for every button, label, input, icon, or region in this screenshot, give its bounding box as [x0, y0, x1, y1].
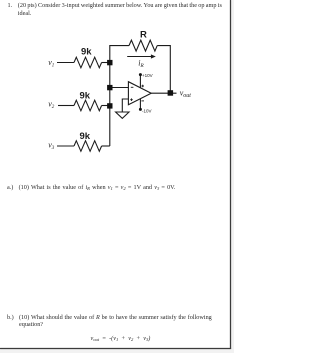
- arrowhead i_R: [151, 54, 156, 58]
- svg-text:iR: iR: [138, 59, 144, 70]
- wire summing bus: [110, 46, 129, 146]
- op-amp plus supply tick: [141, 85, 144, 87]
- equation v_out = -(v1 + v2 + v3): [91, 335, 151, 342]
- question a: [7, 184, 13, 191]
- resistor 9k (v2): [74, 100, 102, 111]
- page bottom edge: [0, 349, 234, 353]
- question b line 2: [19, 321, 43, 328]
- svg-text:v1: v1: [48, 58, 54, 69]
- resistor 9k (v3): [74, 141, 102, 152]
- node A junction dot (v1 row): [107, 60, 112, 65]
- problem statement line 2: [18, 10, 32, 17]
- svg-text:R: R: [140, 29, 147, 40]
- problem statement line 1: [8, 2, 13, 9]
- ground: [116, 112, 129, 118]
- wire v2 to node A: [102, 105, 110, 107]
- junction dot (v2 row): [107, 103, 112, 108]
- current arrow i_R: [127, 56, 151, 58]
- pin -supply: [139, 99, 141, 110]
- svg-text:-10V: -10V: [142, 109, 152, 114]
- wire op-amp output: [151, 92, 176, 94]
- svg-text:9k: 9k: [81, 47, 92, 58]
- -10V supply dot: [139, 108, 142, 111]
- page right edge: [231, 0, 234, 353]
- svg-text:v3: v3: [48, 141, 55, 152]
- pin +supply: [139, 75, 141, 88]
- junction dot (inverting row): [107, 85, 112, 90]
- resistor R feedback: [129, 40, 157, 51]
- wire R to output node: [157, 46, 170, 93]
- op-amp minus supply tick: [141, 100, 144, 102]
- +10V supply dot: [139, 73, 142, 76]
- circuit schematic: [0, 0, 234, 353]
- wire v3 lead: [57, 145, 74, 147]
- op-amp plus input tick: [130, 99, 133, 101]
- output node junction dot: [168, 90, 174, 96]
- svg-text:+10V: +10V: [142, 73, 153, 78]
- wire v2 lead: [58, 105, 74, 107]
- svg-text:v2: v2: [48, 100, 55, 111]
- resistor 9k (v1): [74, 57, 102, 68]
- svg-text:9k: 9k: [80, 91, 91, 102]
- question b line 1: [7, 314, 14, 321]
- wire inverting input: [110, 87, 129, 89]
- wire noninverting to ground: [122, 99, 128, 112]
- wire v1 lead: [57, 62, 74, 64]
- wire v1 to node A: [102, 62, 110, 64]
- svg-text:9k: 9k: [80, 131, 91, 142]
- op-amp minus input tick: [131, 86, 134, 88]
- op-amp U1: [128, 82, 151, 105]
- wire v3 to node A: [102, 145, 110, 147]
- svg-text:vout: vout: [180, 88, 192, 99]
